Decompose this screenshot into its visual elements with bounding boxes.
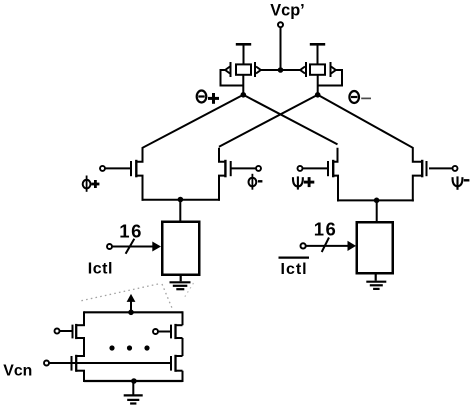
wire BR drain stub [176,355,183,357]
inset bottom rail [84,380,183,382]
svg-text:Vcn: Vcn [3,362,32,379]
inset current source transistor bottom-right gate [170,356,172,371]
wire M3 source [333,176,338,202]
wire right tail [337,199,414,201]
input transistor M3 (psi+) terminal [298,166,303,171]
wire P1 left stub [220,69,227,71]
wire TL source stub [76,337,85,339]
wire Vcn bias line [49,362,170,364]
wire source rail [260,69,302,71]
transistor M2 channel [224,160,226,178]
wire M4 gate lead [429,167,453,169]
node right tail [374,198,380,204]
wire M4 drain to theta- [318,95,423,162]
inset TR gate [170,325,172,339]
PMOS load P2 body [310,64,325,74]
wire M3 drain [333,148,337,162]
current DAC box left [162,222,199,275]
inset switch transistor top-left terminal [55,329,60,334]
ellipsis dots (repeated slices) [109,345,114,350]
wire BL drain stub [76,355,85,357]
PMOS load P2 right contact [330,62,332,77]
input phi+ label [83,176,100,192]
inset top rail [84,311,183,313]
current DAC box right [357,222,393,273]
magnifier dotted ray right [184,283,194,298]
PMOS load P1 right contact [254,62,256,77]
wire BL source stub [76,370,85,372]
inset left rail segments [83,311,85,325]
wire M1 source [136,176,142,201]
wire M1 gate lead [105,167,130,169]
wire Vcp' vertical [280,28,282,70]
wire TR drain stub [176,324,183,326]
wire M4 source [413,176,422,202]
input phi- label [249,174,263,190]
svg-text:Vcp’: Vcp’ [270,1,304,19]
wire BR source stub [176,370,183,372]
arrowhead into right DAC [348,241,357,251]
ground right DAC [366,274,386,289]
transistor M3 channel [332,160,334,178]
magnifier dotted ray middle [162,284,172,308]
PMOS load P1 body [236,64,251,74]
inset TL channel [75,324,77,339]
svg-text:16: 16 [119,221,143,242]
wire P2 feedback loop [318,69,342,86]
wire inset ground stem [132,381,134,395]
inset BR channel [174,355,176,372]
inset top rail node [128,310,134,316]
node theta- label [349,91,371,103]
inset TR channel [174,324,176,339]
inset bottom rail node [131,378,137,384]
PMOS load P2 left arrow [300,67,305,74]
wire right tail drop [376,200,378,223]
PMOS load P2 left contact [305,62,307,77]
inset TL gate [72,325,74,339]
input psi+ label [293,176,314,189]
node theta+ label [197,91,219,104]
inset BL channel [75,355,77,372]
wire M3 gate lead [303,167,328,169]
input transistor M2 (phi-) terminal [256,166,261,171]
wire P1 feedback loop [221,69,244,86]
PMOS load P1 gate terminal [236,43,251,46]
wire cross-couple theta+ to psi+ drain [243,95,337,145]
wire Ictl bus (left) [112,246,153,248]
wire M2 gate lead [232,167,257,169]
ground left DAC [170,275,191,290]
ground inset [124,395,143,403]
transistor M1 gate [130,161,132,176]
wire TL gate lead [60,330,72,332]
node theta- [315,92,321,98]
svg-text:Ictl: Ictl [88,261,113,278]
wire TL drain stub [76,324,85,326]
wire Ictl bus (right) [306,245,349,247]
wire M2 source [219,176,225,201]
input transistor M1 (phi+) terminal [100,166,105,171]
input transistor M4 (psi-) terminal [453,166,458,171]
transistor M1 channel [135,160,137,178]
PMOS load P1 left arrow [225,67,230,74]
terminal Ictl (left) [107,244,112,249]
wire TR gate lead [158,331,170,333]
wire M2 drain [219,148,225,162]
label Ictl-bar overline [279,257,310,259]
inset output arrow [130,302,132,313]
transistor M3 gate [327,161,329,176]
PMOS load P1 left contact [230,62,232,77]
wire left tail drop [179,200,181,222]
magnifier dotted ray left [80,284,158,301]
terminal Vcp' [278,22,283,27]
wire P2 drain [317,75,319,96]
inset switch transistor top-right terminal [153,329,158,334]
input psi- label [453,176,470,189]
terminal Vcn [44,361,49,366]
bus slash (right) [322,238,329,253]
PMOS load P2 gate terminal [310,43,325,46]
wire TR source stub [176,337,183,339]
svg-text:Ictl: Ictl [281,261,308,278]
PMOS load P1 right arrow [256,67,261,74]
arrowhead into left DAC [152,242,161,252]
node theta+ [241,92,247,98]
wire M1 drain to theta+ [136,95,243,162]
terminal Ictl-bar [301,243,306,248]
wire cross-couple theta- to phi- drain [219,95,318,147]
transistor M4 channel [421,160,423,178]
wire P2 right stub [335,69,343,71]
wire left tail [142,199,221,201]
inset current source transistor bottom-left gate [71,356,73,371]
transistor M4 gate [426,161,428,176]
inset right rail segments [182,311,184,325]
node left tail [178,197,184,203]
junction Vcp' rail [278,67,284,73]
svg-text:16: 16 [314,219,338,240]
PMOS load P2 right arrow [331,67,336,74]
transistor M2 gate [230,161,232,176]
wire P1 drain [242,75,244,96]
bus slash (left) [126,239,135,254]
